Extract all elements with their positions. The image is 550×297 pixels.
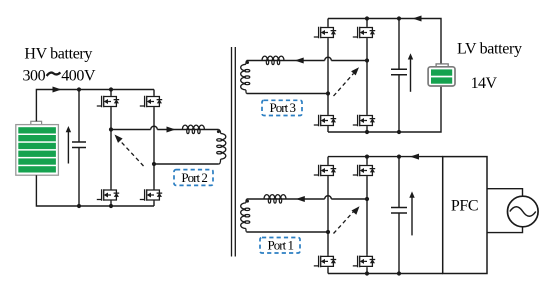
HV voltage arrow [66,126,71,164]
svg-text:400V: 400V [61,67,96,84]
svg-text:Port 1: Port 1 [268,238,295,253]
Port 2 label [174,170,213,186]
wire: PFC top rail [328,156,443,158]
wire: PFC bridge left leg [327,157,329,274]
mosfet S10 [353,164,375,177]
capacitor C1 [391,157,407,274]
mosfet S3 [97,189,119,202]
arrow on PFC top rail [410,154,419,160]
wire: PFC bridge right leg [366,157,368,274]
wire: HV bridge right leg [153,90,155,207]
inductor L2 [182,125,204,133]
mosfet S11 [314,255,336,268]
HV battery icon [16,121,59,175]
polarity dot port3 winding [246,61,249,64]
mosfet S8 [353,114,375,127]
polarity dot port1 winding [246,200,249,203]
polarity dot port2 winding [217,130,220,133]
wire: LV bridge right leg [366,19,368,133]
LV voltage arrow [408,53,413,92]
mosfet S1 [97,95,119,108]
dashed power-flow arrow PFC bridge [334,206,360,233]
mosfet S2 [140,95,162,108]
svg-text:300: 300 [23,67,46,84]
LV battery icon [428,64,455,86]
mosfet S4 [140,189,162,202]
transformer winding port1 [241,199,250,232]
PFC block [443,157,487,274]
PFC voltage arrow [409,191,414,235]
AC source [508,196,539,227]
svg-text:Port 3: Port 3 [270,100,297,115]
arrow on LV top rail [413,16,422,22]
wire: port3 top wire with hop [247,57,367,60]
wire: HV top rail [36,90,154,122]
wire: HV return wire [154,163,219,165]
arrow on HV mid wire [167,127,176,133]
wire: grid bottom connection [487,227,523,233]
wire: port3 bottom wire [247,93,328,95]
mosfet S12 [353,255,375,268]
arrow on HV top rail [53,87,62,93]
junction dots LV bridge [326,16,401,134]
wire: LV bottom rail [328,86,441,132]
wire: LV top rail [328,19,441,64]
svg-text:14V: 14V [471,75,498,92]
inductor L3 [262,56,284,65]
Port 3 label [262,100,302,115]
label LV battery [457,40,522,92]
tilde glyph of 300~400V [47,72,61,76]
mosfet S9 [314,164,336,177]
dashed power-flow arrow HV bridge [115,135,144,167]
mosfet S5 [314,26,336,39]
svg-text:LV battery: LV battery [457,40,522,57]
capacitor C3 [391,19,407,133]
svg-text:PFC: PFC [451,198,479,215]
junction dots HV bridge [77,87,156,208]
wire: LV bridge left leg [327,19,329,133]
transformer winding port3 [241,61,250,94]
wire: port1 bottom wire [247,231,328,233]
svg-text:Port 2: Port 2 [181,170,208,185]
inductor L1 [264,195,286,203]
dashed power-flow arrow LV bridge [334,67,360,96]
Port 1 label [260,238,300,254]
wire: HV mid wire with hop [111,126,219,129]
svg-text:HV battery: HV battery [24,46,92,63]
junction dots PFC bridge [326,155,401,276]
wire: HV bridge left leg [110,90,112,207]
transformer core [232,47,236,257]
mosfet S7 [314,114,336,127]
wire: port1 top wire with hop [247,196,367,199]
capacitor C2 [72,90,86,207]
label HV battery [23,46,96,85]
wire: PFC bottom rail [328,273,443,275]
arrow on port3 top wire [295,58,304,64]
transformer winding port2 [217,130,226,165]
wire: grid top connection [487,189,523,197]
wire: HV bottom rail [36,175,154,206]
arrow on port1 top wire [296,196,305,202]
mosfet S6 [353,26,375,39]
